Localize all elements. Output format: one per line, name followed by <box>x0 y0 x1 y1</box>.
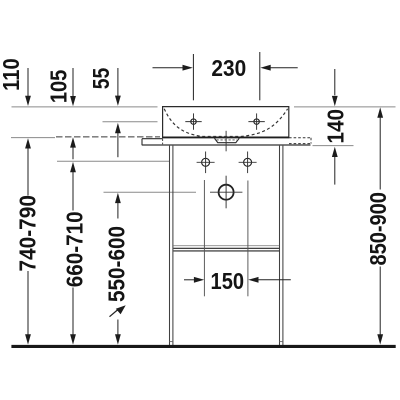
svg-text:740-790: 740-790 <box>15 195 41 271</box>
svg-text:850-900: 850-900 <box>365 192 391 265</box>
svg-text:110: 110 <box>0 58 24 91</box>
svg-text:140: 140 <box>323 109 349 144</box>
svg-text:55: 55 <box>88 68 114 90</box>
svg-text:230: 230 <box>211 55 246 81</box>
svg-text:150: 150 <box>211 268 245 294</box>
svg-text:105: 105 <box>45 69 71 103</box>
svg-text:660-710: 660-710 <box>61 211 87 287</box>
svg-text:550-600: 550-600 <box>104 226 130 302</box>
